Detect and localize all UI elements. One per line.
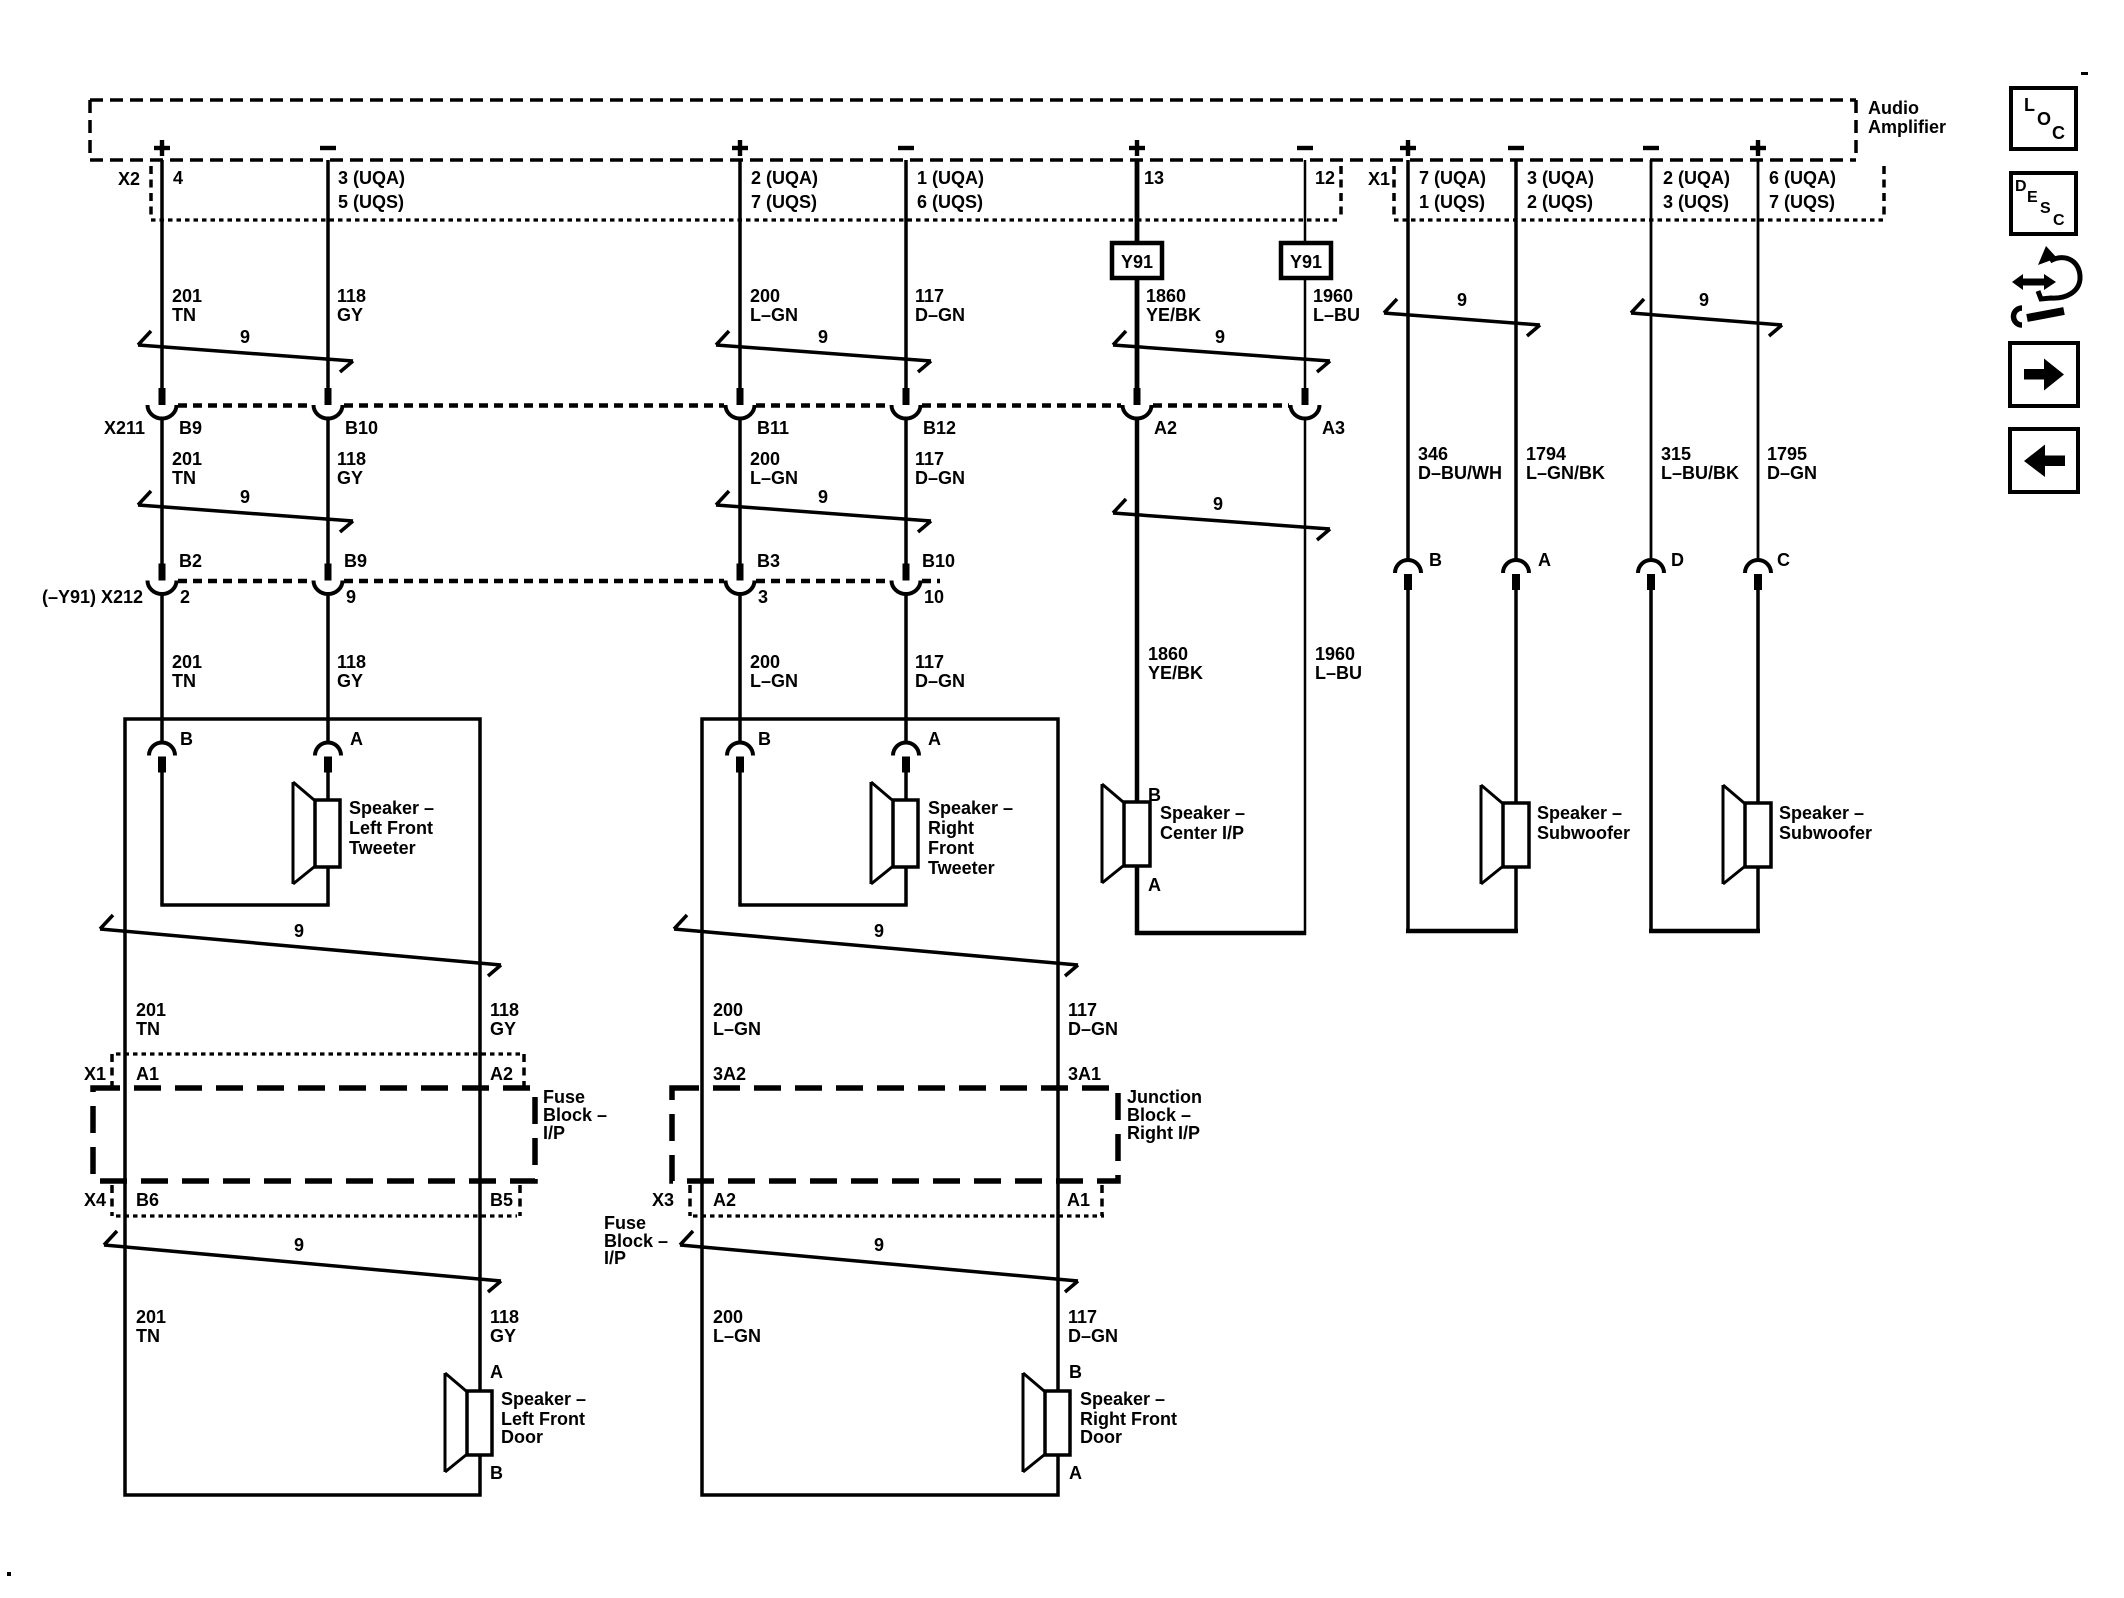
svg-text:B10: B10 [345,418,378,438]
svg-text:A: A [928,729,941,749]
subwoofer pigtail terminal B [1395,560,1421,590]
svg-text:9: 9 [818,487,828,507]
subwoofer pigtail terminal A [1503,560,1529,590]
wire 315 L-BU/BK segment from amp [1650,160,1653,561]
svg-text:YE/BK: YE/BK [1146,305,1201,325]
svg-text:B: B [1148,785,1161,805]
svg-text:Subwoofer: Subwoofer [1779,823,1872,843]
svg-text:A: A [1069,1463,1082,1483]
amplifier minus terminal at x=906 [898,146,914,150]
tweeter pigtail terminal A [893,743,919,773]
X211 terminal pin B10 [314,388,343,419]
DESC icon box [2011,173,2076,234]
svg-text:X1: X1 [1368,169,1390,189]
connector-view icon (double arrow, rotate arrow and wrench) [2012,246,2080,325]
svg-text:2 (UQS): 2 (UQS) [1527,192,1593,212]
svg-text:1 (UQS): 1 (UQS) [1419,192,1485,212]
X212 terminal pin 2 [148,564,177,595]
svg-text:9: 9 [1457,290,1467,310]
left tweeter wire loop [160,771,329,905]
svg-text:B5: B5 [490,1190,513,1210]
speaker - subwoofer symbol [1481,785,1529,884]
amplifier pin label 7 (UQA) at x=1419 [1419,168,1486,212]
tweeter pigtail terminal B [727,743,753,773]
svg-text:Junction: Junction [1127,1087,1202,1107]
svg-text:E: E [2027,189,2038,206]
tweeter pigtail terminal B [149,743,175,773]
connector X1 bracket right [1882,166,1886,220]
fuse block - I/P dashed box [93,1088,535,1181]
svg-text:TN: TN [136,1326,160,1346]
svg-text:Amplifier: Amplifier [1868,117,1946,137]
svg-text:Y91: Y91 [1121,252,1153,272]
wire label 1795 D–GN [1767,444,1817,483]
svg-text:7 (UQS): 7 (UQS) [751,192,817,212]
wire label 201 TN row5 [136,1307,166,1346]
subwoofer wire loop [1406,589,1518,933]
wire crossing symbol C9 (9 wires) [100,915,501,976]
svg-text:TN: TN [136,1019,160,1039]
wire crossing symbol C7 (9 wires) [716,487,931,532]
svg-text:O: O [2037,109,2051,129]
subwoofer wire loop [1649,589,1760,933]
wire 1860 YE/BK segment to speaker [1135,418,1140,804]
svg-text:B10: B10 [922,551,955,571]
svg-text:D–GN: D–GN [1068,1326,1118,1346]
svg-text:Right: Right [928,818,974,838]
svg-text:L–BU/BK: L–BU/BK [1661,463,1739,483]
svg-text:Subwoofer: Subwoofer [1537,823,1630,843]
svg-text:201: 201 [136,1307,166,1327]
speaker - left front door symbol [445,1373,492,1472]
svg-text:315: 315 [1661,444,1691,464]
wire label 201 TN row3 [172,652,202,691]
svg-text:I/P: I/P [604,1248,626,1268]
wire crossing symbol C1 (9 wires) [138,327,353,372]
svg-text:B11: B11 [757,418,789,438]
fuse block X4 bracket right [518,1185,522,1216]
svg-text:Speaker –: Speaker – [1160,803,1245,823]
svg-text:117: 117 [1068,1307,1097,1327]
amplifier pin label 4 at x=173 [173,168,183,188]
fuse block X4 bracket left [110,1185,114,1216]
stray mark top right [2081,72,2088,75]
svg-text:3A2: 3A2 [713,1064,746,1084]
wire label 117 D–GN row3 [915,652,965,691]
wire crossing symbol C12 (9 wires) [680,1231,1078,1292]
connector X1 bracket left [1392,166,1396,220]
svg-text:Left Front: Left Front [501,1409,585,1429]
svg-text:L–GN: L–GN [713,1326,761,1346]
svg-text:117: 117 [915,652,944,672]
svg-text:9: 9 [1213,494,1223,514]
wire label 1860 YE/BK row3 [1148,644,1203,683]
wire 117 D-GN segment from amp [904,160,908,389]
wire 1860 below center speaker [1135,866,1140,935]
speaker - center I/P label [1160,803,1245,843]
svg-text:L–GN: L–GN [750,305,798,325]
svg-text:7 (UQA): 7 (UQA) [1419,168,1486,188]
svg-text:L: L [2024,95,2035,115]
svg-text:346: 346 [1418,444,1448,464]
svg-text:A1: A1 [136,1064,159,1084]
left front speaker harness box [125,719,480,1495]
svg-text:B: B [1429,550,1442,570]
svg-text:B9: B9 [344,551,367,571]
back arrow icon box [2010,429,2078,492]
fuse block X1 bracket right [522,1054,526,1086]
wire label 118 GY row3 [337,652,366,691]
amplifier pin label 3 (UQA) at x=1527 [1527,168,1594,212]
svg-text:A2: A2 [713,1190,736,1210]
connector X1 dotted line [1394,218,1884,221]
svg-text:200: 200 [750,449,780,469]
svg-text:1 (UQA): 1 (UQA) [917,168,984,188]
wire label 201 TN row1 [172,286,202,325]
wire crossing symbol C8 (9 wires) [1113,494,1330,540]
svg-text:Block –: Block – [1127,1105,1191,1125]
svg-text:5 (UQS): 5 (UQS) [338,192,404,212]
svg-text:3 (UQA): 3 (UQA) [1527,168,1594,188]
wire 1960 L-BU segment from amp [1304,160,1307,389]
wire crossing symbol C11 (9 wires) [104,1231,501,1292]
svg-text:117: 117 [1068,1000,1097,1020]
wire 1860 YE/BK segment from amp [1135,160,1140,389]
amplifier minus terminal at x=1305 [1297,146,1313,150]
svg-text:D–GN: D–GN [915,305,965,325]
svg-text:TN: TN [172,468,196,488]
amplifier plus terminal at x=740 [732,140,748,156]
wire 118 GY segment X211-X212 [326,418,330,564]
wire 117 D-GN segment X211-X212 [904,418,908,564]
junction block X3 bracket left [688,1185,692,1216]
svg-text:Door: Door [501,1427,543,1447]
svg-text:Right Front: Right Front [1080,1409,1177,1429]
svg-text:10: 10 [924,587,944,607]
speaker - subwoofer label [1779,803,1872,843]
amplifier plus terminal at x=1137 [1129,140,1145,156]
X212 terminal pin 9 [314,564,343,595]
svg-text:L–GN: L–GN [750,468,798,488]
svg-text:B12: B12 [923,418,956,438]
speaker - right front door label [1080,1389,1177,1447]
amplifier plus terminal at x=1408 [1400,140,1416,156]
wire label 1960 L–BU row1 [1313,286,1360,325]
svg-text:Tweeter: Tweeter [349,838,416,858]
X211 terminal pin B11 [726,388,755,419]
svg-text:3A1: 3A1 [1068,1064,1101,1084]
svg-text:2 (UQA): 2 (UQA) [1663,168,1730,188]
X211 terminal pin B12 [892,388,921,419]
amplifier pin label 1 (UQA) at x=917 [917,168,984,212]
svg-text:X3: X3 [652,1190,674,1210]
wire label 118 GY row5 [490,1307,519,1346]
svg-text:C: C [2053,212,2065,229]
svg-text:9: 9 [294,921,304,941]
right tweeter wire loop [738,771,907,905]
svg-text:TN: TN [172,305,196,325]
svg-text:9: 9 [874,921,884,941]
amplifier plus terminal at x=162 [154,140,170,156]
svg-text:Speaker –: Speaker – [501,1389,586,1409]
svg-text:Door: Door [1080,1427,1122,1447]
right front speaker harness box [702,719,1058,1495]
svg-text:1860: 1860 [1148,644,1188,664]
svg-text:6 (UQA): 6 (UQA) [1769,168,1836,188]
svg-text:9: 9 [294,1235,304,1255]
X212 terminal pin 3 [726,564,755,595]
svg-text:B6: B6 [136,1190,159,1210]
svg-text:118: 118 [490,1307,519,1327]
svg-text:200: 200 [713,1307,743,1327]
svg-text:A2: A2 [490,1064,513,1084]
svg-text:D–GN: D–GN [1767,463,1817,483]
svg-text:Speaker –: Speaker – [349,798,434,818]
svg-text:201: 201 [172,449,202,469]
svg-text:117: 117 [915,286,944,306]
svg-text:1795: 1795 [1767,444,1807,464]
amplifier minus terminal at x=328 [320,146,336,150]
wire label 200 L–GN row1 [750,286,798,325]
forward arrow icon box [2010,343,2078,406]
svg-text:201: 201 [172,652,202,672]
wire label 1960 L-BU row3 [1315,644,1362,683]
speaker - left front tweeter label [349,798,434,858]
junction block - right I/P label [1127,1087,1202,1143]
svg-text:X1: X1 [84,1064,106,1084]
svg-text:(–Y91) X212: (–Y91) X212 [42,587,143,607]
svg-text:2: 2 [180,587,190,607]
svg-text:D–GN: D–GN [1068,1019,1118,1039]
svg-text:6 (UQS): 6 (UQS) [917,192,983,212]
wire label 118 GY row4 [490,1000,519,1039]
svg-text:1960: 1960 [1315,644,1355,664]
wire label 117 D–GN row5 [1068,1307,1118,1346]
svg-text:7 (UQS): 7 (UQS) [1769,192,1835,212]
wire label 200 L–GN row4 [713,1000,761,1039]
wire crossing symbol C3 (9 wires) [1113,327,1330,372]
wire 117 D-GN segment to tweeter [904,593,908,743]
svg-text:GY: GY [490,1019,516,1039]
amplifier pin label 13 at x=1144 [1144,168,1164,188]
svg-text:9: 9 [874,1235,884,1255]
wire 200 L-GN segment X211-X212 [738,418,742,564]
audio amplifier dashed box [90,100,1856,160]
wire 200 L-GN segment from amp [738,160,742,389]
svg-text:12: 12 [1315,168,1335,188]
wire label 118 GY row1 [337,286,366,325]
svg-text:A2: A2 [1154,418,1177,438]
svg-text:A: A [490,1362,503,1382]
svg-text:C: C [2052,123,2065,143]
svg-text:Fuse: Fuse [543,1087,585,1107]
svg-text:X211: X211 [104,418,145,438]
svg-text:1860: 1860 [1146,286,1186,306]
svg-text:Center I/P: Center I/P [1160,823,1244,843]
amplifier pin label 2 (UQA) at x=751 [751,168,818,212]
svg-text:GY: GY [337,468,363,488]
svg-text:A: A [1538,550,1551,570]
svg-text:S: S [2040,200,2051,217]
svg-text:118: 118 [337,652,366,672]
svg-text:B: B [758,729,771,749]
svg-text:117: 117 [915,449,944,469]
connector X212 dashed line [178,579,940,584]
speaker - center I/P symbol [1102,784,1150,883]
svg-text:A: A [350,729,363,749]
Y91 callout box on wire 1860 [1112,243,1162,278]
wire 200 L-GN segment to tweeter [738,593,742,743]
wire 1794 L-GN/BK segment from amp [1514,160,1518,561]
X211 terminal pin B9 [148,388,177,419]
wire label 315 L–BU/BK [1661,444,1739,483]
wire label 1794 L–GN/BK [1526,444,1605,483]
svg-text:D–GN: D–GN [915,468,965,488]
svg-text:C: C [1777,550,1790,570]
svg-text:200: 200 [713,1000,743,1020]
svg-text:D–GN: D–GN [915,671,965,691]
svg-text:B: B [1069,1362,1082,1382]
svg-text:GY: GY [490,1326,516,1346]
wire crossing symbol C10 (9 wires) [674,915,1078,976]
svg-text:A1: A1 [1067,1190,1090,1210]
svg-text:Speaker –: Speaker – [928,798,1013,818]
X212 terminal pin 10 [892,564,921,595]
svg-text:I/P: I/P [543,1123,565,1143]
svg-text:X4: X4 [84,1190,106,1210]
wire crossing symbol C6 (9 wires) [138,487,353,532]
connector X2 bracket right [1339,166,1343,220]
speaker - subwoofer symbol [1723,785,1771,884]
LOC icon box [2011,88,2076,149]
svg-text:L–BU: L–BU [1315,663,1362,683]
wire label 200 L–GN row2 [750,449,798,488]
svg-text:TN: TN [172,671,196,691]
svg-text:9: 9 [1215,327,1225,347]
amplifier minus terminal at x=1651 [1643,146,1659,150]
junction block X3 bracket right [1100,1185,1104,1216]
connector X211 dashed line [178,403,1289,408]
wire 118 GY segment to tweeter [326,593,330,743]
speaker - right front tweeter label [928,798,1013,878]
wire 346 D-BU/WH segment from amp [1406,160,1410,561]
svg-text:9: 9 [1699,290,1709,310]
svg-text:9: 9 [240,487,250,507]
wire label 201 TN row4 [136,1000,166,1039]
svg-text:201: 201 [172,286,202,306]
wire label 200 L–GN row5 [713,1307,761,1346]
svg-text:B9: B9 [179,418,202,438]
svg-text:Speaker –: Speaker – [1537,803,1622,823]
wire 1960 L-BU segment to loop [1304,418,1307,935]
Y91 callout box on wire 1960 [1281,243,1331,278]
svg-text:A: A [1148,875,1161,895]
tweeter pigtail terminal A [315,743,341,773]
svg-text:Audio: Audio [1868,98,1919,118]
svg-text:Speaker –: Speaker – [1779,803,1864,823]
speaker - subwoofer label [1537,803,1630,843]
svg-text:D: D [2015,178,2027,195]
svg-text:1960: 1960 [1313,286,1353,306]
fuse block - I/P label (middle column) [604,1213,668,1268]
wire 201 TN segment from amp [160,160,164,389]
speaker - left front tweeter symbol [293,782,340,884]
wire 201 TN segment X211-X212 [160,418,164,564]
wire crossing symbol C2 (9 wires) [716,327,931,372]
svg-text:B: B [490,1463,503,1483]
svg-text:13: 13 [1144,168,1164,188]
junction block - right I/P dashed box [672,1088,1118,1181]
connector X2 dotted line [151,218,1341,221]
svg-text:Tweeter: Tweeter [928,858,995,878]
wire label 1860 YE/BK row1 [1146,286,1201,325]
wire label 201 TN row2 [172,449,202,488]
amplifier plus terminal at x=1758 [1750,140,1766,156]
svg-text:A3: A3 [1322,418,1345,438]
svg-text:GY: GY [337,305,363,325]
svg-text:9: 9 [818,327,828,347]
svg-text:Y91: Y91 [1290,252,1322,272]
svg-text:3 (UQA): 3 (UQA) [338,168,405,188]
audio amplifier label [1868,98,1946,137]
svg-text:B: B [180,729,193,749]
amplifier pin label 3 (UQA) at x=338 [338,168,405,212]
svg-text:9: 9 [240,327,250,347]
stray mark bottom left [7,1572,11,1576]
svg-text:L–GN: L–GN [750,671,798,691]
svg-text:4: 4 [173,168,183,188]
svg-text:2 (UQA): 2 (UQA) [751,168,818,188]
svg-text:Fuse: Fuse [604,1213,646,1233]
svg-text:L–BU: L–BU [1313,305,1360,325]
speaker - right front tweeter symbol [871,782,918,884]
wire label 346 D–BU/WH [1418,444,1502,483]
svg-text:201: 201 [136,1000,166,1020]
X211 terminal pin A2 [1123,388,1152,419]
svg-text:200: 200 [750,652,780,672]
svg-text:Left Front: Left Front [349,818,433,838]
amplifier pin label 2 (UQA) at x=1663 [1663,168,1730,212]
speaker - left front door label [501,1389,586,1447]
amplifier pin label 12 at x=1315 [1315,168,1335,188]
svg-text:GY: GY [337,671,363,691]
svg-text:118: 118 [490,1000,519,1020]
svg-text:200: 200 [750,286,780,306]
amplifier minus terminal at x=1516 [1508,146,1524,150]
svg-text:9: 9 [346,587,356,607]
svg-text:3: 3 [758,587,768,607]
svg-text:118: 118 [337,449,366,469]
connector X2 bracket left [149,166,153,220]
junction block X3 dotted line [693,1214,1104,1217]
fuse block X4 dotted line [116,1214,517,1217]
subwoofer pigtail terminal D [1638,560,1664,590]
svg-text:L–GN/BK: L–GN/BK [1526,463,1605,483]
wire label 118 GY row2 [337,449,366,488]
wire label 117 D–GN row1 [915,286,965,325]
amplifier pin label 6 (UQA) at x=1769 [1769,168,1836,212]
svg-text:Speaker –: Speaker – [1080,1389,1165,1409]
wire label 200 L–GN row3 [750,652,798,691]
center speaker loop bottom [1135,931,1306,936]
svg-text:YE/BK: YE/BK [1148,663,1203,683]
fuse block - I/P label [543,1087,607,1143]
speaker - right front door symbol [1023,1373,1070,1472]
svg-text:B2: B2 [179,551,202,571]
svg-text:B3: B3 [757,551,780,571]
svg-text:L–GN: L–GN [713,1019,761,1039]
wire crossing symbol C5 (9 wires) [1631,290,1782,336]
